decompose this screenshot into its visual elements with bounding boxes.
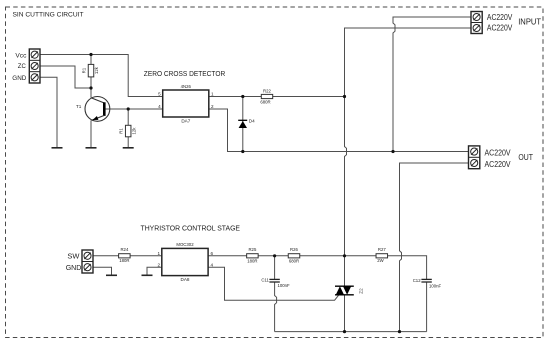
svg-text:100nF: 100nF xyxy=(278,283,291,288)
svg-text:12k: 12k xyxy=(131,127,136,135)
svg-text:C11: C11 xyxy=(261,277,269,282)
svg-text:DA7: DA7 xyxy=(181,119,190,124)
svg-text:12k: 12k xyxy=(94,66,99,74)
svg-text:5: 5 xyxy=(158,92,161,97)
svg-text:SIN CUTTING CIRCUIT: SIN CUTTING CIRCUIT xyxy=(13,12,84,19)
svg-text:T1: T1 xyxy=(76,104,82,109)
svg-text:MOC302: MOC302 xyxy=(176,242,194,247)
svg-text:D4: D4 xyxy=(249,118,255,123)
svg-text:R26: R26 xyxy=(290,247,298,252)
svg-text:R27: R27 xyxy=(378,247,386,252)
svg-text:AC220V: AC220V xyxy=(485,160,512,169)
svg-text:2W: 2W xyxy=(377,258,384,263)
svg-text:GND: GND xyxy=(12,75,27,82)
svg-text:R1: R1 xyxy=(82,67,87,73)
svg-text:AC220V: AC220V xyxy=(487,13,513,22)
svg-text:AC220V: AC220V xyxy=(485,149,512,158)
svg-text:ZC: ZC xyxy=(18,63,27,70)
svg-text:Vcc: Vcc xyxy=(15,53,26,60)
svg-text:OUT: OUT xyxy=(518,153,533,162)
svg-text:2: 2 xyxy=(157,262,160,267)
svg-text:THYRISTOR CONTROL STAGE: THYRISTOR CONTROL STAGE xyxy=(141,224,241,233)
svg-text:6: 6 xyxy=(211,251,214,256)
svg-text:R24: R24 xyxy=(120,247,128,252)
svg-text:DA8: DA8 xyxy=(181,277,190,282)
svg-text:680R: 680R xyxy=(260,99,270,104)
svg-text:4N26: 4N26 xyxy=(181,84,192,89)
svg-text:GND: GND xyxy=(66,263,82,272)
svg-text:180R: 180R xyxy=(247,258,257,263)
svg-text:R25: R25 xyxy=(248,247,256,252)
svg-text:4: 4 xyxy=(158,104,161,109)
svg-text:180R: 180R xyxy=(119,258,129,263)
svg-text:INPUT: INPUT xyxy=(518,17,541,26)
svg-text:680R: 680R xyxy=(289,258,299,263)
svg-text:R1: R1 xyxy=(118,128,123,134)
svg-text:C12: C12 xyxy=(413,278,421,283)
svg-text:2: 2 xyxy=(211,104,214,109)
svg-text:R22: R22 xyxy=(263,89,271,94)
svg-text:SW: SW xyxy=(67,252,79,261)
svg-text:AC220V: AC220V xyxy=(487,24,513,33)
svg-text:4: 4 xyxy=(211,262,214,267)
svg-text:1: 1 xyxy=(157,251,160,256)
svg-text:100nF: 100nF xyxy=(429,284,442,289)
svg-text:Z2: Z2 xyxy=(359,288,364,294)
svg-text:1: 1 xyxy=(211,92,214,97)
svg-text:ZERO CROSS DETECTOR: ZERO CROSS DETECTOR xyxy=(144,69,226,78)
